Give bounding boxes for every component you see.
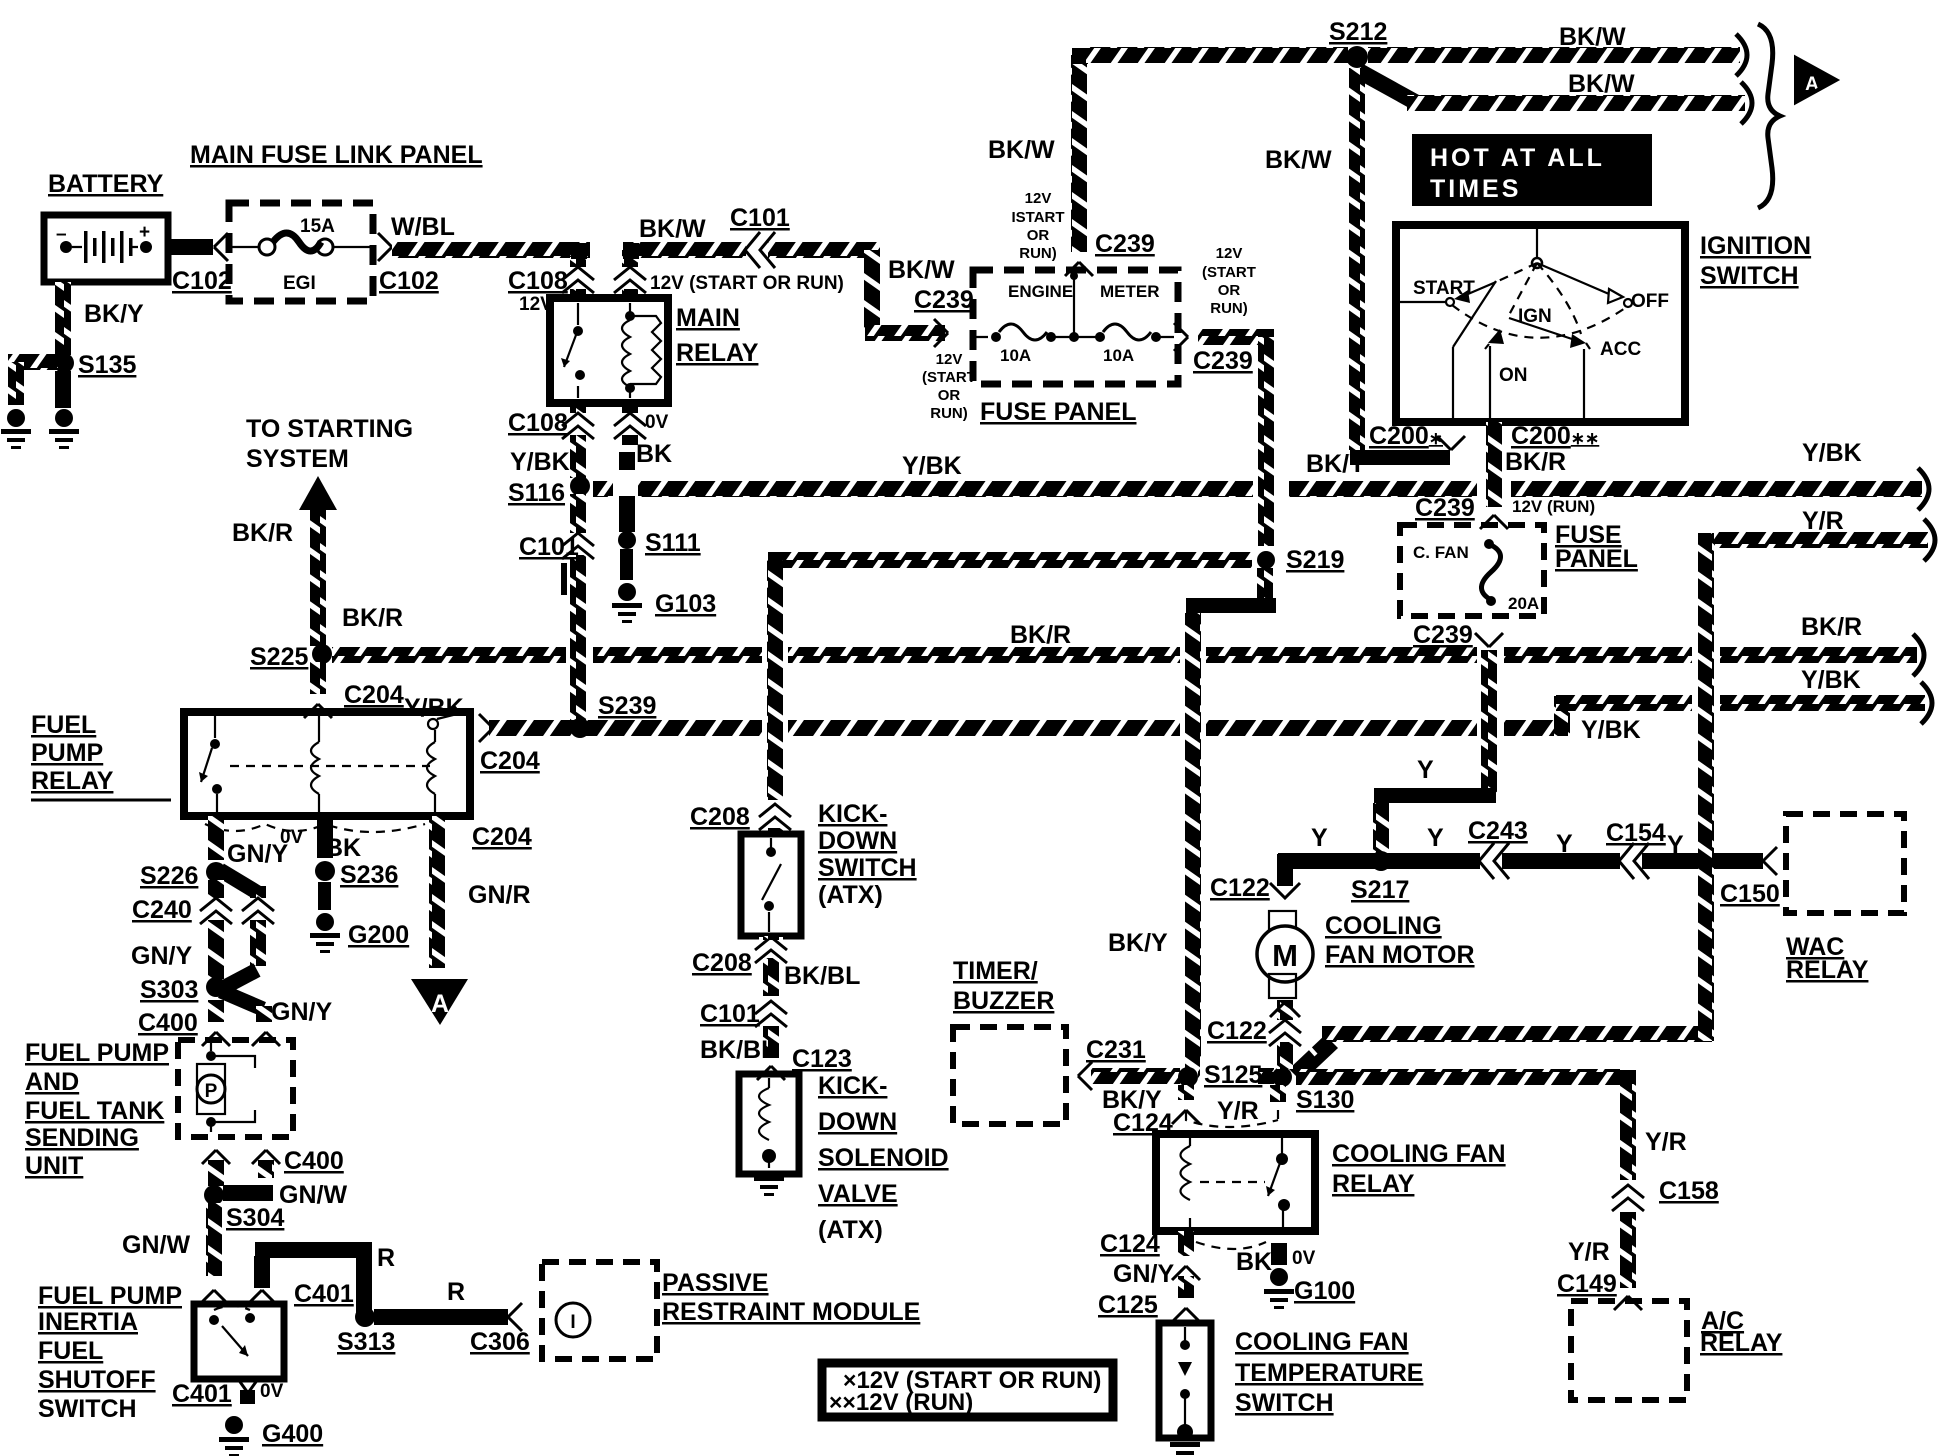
svg-text:GN/R: GN/R (468, 881, 531, 909)
svg-text:INERTIA: INERTIA (38, 1308, 138, 1336)
svg-text:C158: C158 (1659, 1177, 1719, 1205)
svg-text:P: P (205, 1081, 218, 1102)
svg-text:RELAY: RELAY (676, 339, 759, 367)
svg-text:M: M (1272, 938, 1298, 973)
svg-text:S217: S217 (1351, 876, 1409, 904)
svg-text:SWITCH: SWITCH (1235, 1389, 1334, 1417)
svg-text:FUEL TANK: FUEL TANK (25, 1097, 164, 1125)
svg-text:G400: G400 (262, 1420, 323, 1448)
svg-text:12V: 12V (1216, 245, 1243, 262)
svg-text:C208: C208 (692, 949, 752, 977)
svg-text:GN/Y: GN/Y (131, 942, 192, 970)
svg-text:(START: (START (922, 369, 976, 386)
svg-text:C231: C231 (1086, 1036, 1146, 1064)
svg-text:0V: 0V (280, 827, 304, 848)
svg-text:C239: C239 (1095, 230, 1155, 258)
svg-text:Y: Y (1667, 831, 1684, 859)
svg-text:EGI: EGI (283, 273, 316, 294)
svg-text:OR: OR (938, 387, 961, 404)
svg-text:Y/BK: Y/BK (1802, 439, 1862, 467)
svg-text:SWITCH: SWITCH (38, 1395, 137, 1423)
svg-text:RELAY: RELAY (1332, 1170, 1415, 1198)
svg-text:GN/Y: GN/Y (271, 998, 332, 1026)
svg-text:C154: C154 (1606, 819, 1666, 847)
svg-text:S313: S313 (337, 1328, 395, 1356)
svg-text:RUN): RUN) (1019, 245, 1057, 262)
svg-text:Y/BK: Y/BK (510, 448, 570, 476)
svg-text:S212: S212 (1329, 18, 1387, 46)
svg-text:Y/BK: Y/BK (902, 452, 962, 480)
svg-text:SWITCH: SWITCH (1700, 262, 1799, 290)
svg-text:FUEL: FUEL (31, 711, 96, 739)
svg-text:0V: 0V (1292, 1248, 1316, 1269)
svg-text:ON: ON (1499, 365, 1528, 386)
svg-text:12V (START OR RUN): 12V (START OR RUN) (650, 273, 844, 294)
svg-text:COOLING: COOLING (1325, 912, 1442, 940)
svg-text:BK/W: BK/W (1265, 146, 1332, 174)
svg-text:12V (RUN): 12V (RUN) (1512, 497, 1595, 516)
svg-text:R: R (377, 1244, 395, 1272)
svg-text:A: A (431, 990, 449, 1018)
svg-text:C401: C401 (172, 1380, 232, 1408)
svg-text:SENDING: SENDING (25, 1124, 139, 1152)
svg-text:C108: C108 (508, 267, 568, 295)
svg-text:RUN): RUN) (1210, 300, 1248, 317)
svg-text:15A: 15A (300, 216, 335, 237)
svg-text:C204: C204 (472, 823, 532, 851)
svg-text:ENGINE: ENGINE (1008, 282, 1073, 301)
svg-text:Y/R: Y/R (1568, 1238, 1610, 1266)
svg-text:FUEL PUMP: FUEL PUMP (38, 1282, 182, 1310)
svg-text:BK/W: BK/W (639, 215, 706, 243)
svg-text:PANEL: PANEL (1555, 545, 1638, 573)
svg-text:0V: 0V (260, 1381, 284, 1402)
svg-text:IGN: IGN (1518, 306, 1552, 327)
svg-text:C243: C243 (1468, 817, 1528, 845)
svg-text:BK/Y: BK/Y (1108, 929, 1168, 957)
svg-text:S303: S303 (140, 976, 198, 1004)
svg-text:BK/R: BK/R (342, 604, 403, 632)
svg-text:Y: Y (1556, 830, 1573, 858)
svg-text:Y/R: Y/R (1802, 507, 1844, 535)
svg-text:BATTERY: BATTERY (48, 170, 164, 198)
svg-text:GN/W: GN/W (279, 1181, 347, 1209)
svg-text:C401: C401 (294, 1280, 354, 1308)
svg-text:RELAY: RELAY (1700, 1329, 1783, 1357)
svg-text:HOT AT ALL: HOT AT ALL (1430, 144, 1605, 172)
svg-text:Y/BK: Y/BK (1801, 666, 1861, 694)
svg-text:BUZZER: BUZZER (953, 987, 1054, 1015)
svg-text:(ATX): (ATX) (818, 881, 883, 909)
svg-text:C101: C101 (730, 204, 790, 232)
svg-text:OR: OR (1027, 227, 1050, 244)
svg-text:BK/Y: BK/Y (84, 300, 144, 328)
svg-text:C208: C208 (690, 803, 750, 831)
svg-text:KICK-: KICK- (818, 1072, 887, 1100)
svg-text:Y/R: Y/R (1645, 1128, 1687, 1156)
svg-text:12V: 12V (1025, 190, 1052, 207)
svg-text:G100: G100 (1294, 1277, 1355, 1305)
svg-text:C306: C306 (470, 1328, 530, 1356)
svg-text:C122: C122 (1210, 874, 1270, 902)
svg-text:(ATX): (ATX) (818, 1216, 883, 1244)
svg-text:SWITCH: SWITCH (818, 854, 917, 882)
svg-text:10A: 10A (1103, 346, 1134, 365)
svg-text:C239: C239 (1193, 347, 1253, 375)
svg-text:S130: S130 (1296, 1086, 1354, 1114)
svg-text:METER: METER (1100, 282, 1160, 301)
svg-text:Y: Y (1417, 756, 1434, 784)
svg-text:S239: S239 (598, 692, 656, 720)
svg-text:+: + (139, 222, 150, 243)
svg-text:BK/W: BK/W (988, 136, 1055, 164)
svg-text:COOLING FAN: COOLING FAN (1235, 1328, 1409, 1356)
svg-text:BK/R: BK/R (232, 519, 293, 547)
svg-text:C204: C204 (344, 681, 404, 709)
svg-text:COOLING FAN: COOLING FAN (1332, 1140, 1506, 1168)
svg-text:BK: BK (1236, 1248, 1272, 1276)
svg-text:RELAY: RELAY (1786, 956, 1869, 984)
svg-text:C101: C101 (519, 533, 579, 561)
svg-text:FUEL PUMP: FUEL PUMP (25, 1039, 169, 1067)
svg-text:FUSE PANEL: FUSE PANEL (980, 398, 1137, 426)
svg-text:RUN): RUN) (930, 405, 968, 422)
svg-text:ISTART: ISTART (1011, 209, 1064, 226)
svg-text:C122: C122 (1207, 1017, 1267, 1045)
svg-text:START: START (1413, 278, 1475, 299)
svg-text:S116: S116 (508, 479, 565, 507)
svg-text:BK: BK (325, 834, 361, 862)
svg-text:SHUTOFF: SHUTOFF (38, 1366, 156, 1394)
svg-text:C400: C400 (284, 1147, 344, 1175)
svg-text:KICK-: KICK- (818, 800, 887, 828)
svg-text:10A: 10A (1000, 346, 1031, 365)
svg-text:MAIN: MAIN (676, 304, 740, 332)
svg-text:MAIN FUSE LINK PANEL: MAIN FUSE LINK PANEL (190, 141, 483, 169)
svg-text:××12V (RUN): ××12V (RUN) (829, 1389, 973, 1416)
svg-text:OR: OR (1218, 282, 1241, 299)
svg-text:ACC: ACC (1600, 339, 1641, 360)
svg-text:C150: C150 (1720, 880, 1780, 908)
svg-text:S111: S111 (645, 529, 701, 557)
svg-text:G103: G103 (655, 590, 716, 618)
svg-text:DOWN: DOWN (818, 827, 897, 855)
svg-text:0V: 0V (645, 412, 669, 433)
svg-text:PUMP: PUMP (31, 739, 103, 767)
svg-text:BK: BK (636, 440, 672, 468)
svg-text:S304: S304 (226, 1204, 284, 1232)
svg-text:S226: S226 (140, 862, 198, 890)
svg-text:(START: (START (1202, 264, 1256, 281)
svg-text:Y: Y (1311, 824, 1328, 852)
svg-text:TIMES: TIMES (1430, 175, 1521, 203)
svg-text:12V: 12V (936, 351, 963, 368)
svg-text:BK/R: BK/R (1010, 621, 1071, 649)
svg-text:Y/BK: Y/BK (1581, 716, 1641, 744)
svg-text:C108: C108 (508, 409, 568, 437)
svg-text:C124: C124 (1100, 1230, 1160, 1258)
svg-text:PASSIVE: PASSIVE (662, 1269, 769, 1297)
svg-text:FUEL: FUEL (38, 1337, 103, 1365)
svg-text:C239: C239 (914, 286, 974, 314)
svg-text:BK/W: BK/W (888, 256, 955, 284)
svg-text:S219: S219 (1286, 546, 1344, 574)
svg-text:UNIT: UNIT (25, 1152, 83, 1180)
svg-text:BK/BL: BK/BL (700, 1036, 776, 1064)
svg-text:VALVE: VALVE (818, 1180, 898, 1208)
svg-text:I: I (570, 1312, 575, 1333)
svg-text:BK/W: BK/W (1568, 70, 1635, 98)
svg-text:GN/W: GN/W (122, 1231, 190, 1259)
svg-text:C204: C204 (480, 747, 540, 775)
svg-text:C123: C123 (792, 1045, 852, 1073)
svg-text:S225: S225 (250, 643, 308, 671)
svg-text:AND: AND (25, 1068, 79, 1096)
svg-text:BK/W: BK/W (1559, 23, 1626, 51)
svg-text:SOLENOID: SOLENOID (818, 1144, 949, 1172)
svg-text:C125: C125 (1098, 1291, 1158, 1319)
svg-text:C239: C239 (1413, 621, 1473, 649)
svg-text:OFF: OFF (1631, 291, 1669, 312)
svg-text:S236: S236 (340, 861, 398, 889)
svg-text:20A: 20A (1508, 594, 1539, 613)
svg-text:RESTRAINT MODULE: RESTRAINT MODULE (662, 1298, 920, 1326)
svg-text:BK/R: BK/R (1801, 613, 1862, 641)
svg-text:C101: C101 (700, 1000, 760, 1028)
svg-text:C400: C400 (138, 1009, 198, 1037)
svg-text:G200: G200 (348, 921, 409, 949)
svg-text:C102: C102 (379, 267, 439, 295)
svg-text:GN/Y: GN/Y (1113, 1260, 1174, 1288)
svg-text:BK/R: BK/R (1505, 448, 1566, 476)
svg-text:RELAY: RELAY (31, 767, 114, 795)
svg-text:SYSTEM: SYSTEM (246, 445, 349, 473)
svg-text:C240: C240 (132, 896, 192, 924)
svg-text:TO STARTING: TO STARTING (246, 415, 413, 443)
svg-text:TIMER/: TIMER/ (953, 957, 1038, 985)
svg-text:DOWN: DOWN (818, 1108, 897, 1136)
svg-text:BK/BL: BK/BL (784, 962, 860, 990)
svg-text:Y/R: Y/R (1217, 1097, 1259, 1125)
svg-text:C. FAN: C. FAN (1413, 543, 1469, 562)
svg-text:TEMPERATURE: TEMPERATURE (1235, 1359, 1423, 1387)
svg-text:S125: S125 (1204, 1061, 1262, 1089)
svg-text:S135: S135 (78, 351, 136, 379)
svg-text:FAN MOTOR: FAN MOTOR (1325, 941, 1475, 969)
svg-text:R: R (447, 1278, 465, 1306)
svg-text:C149: C149 (1557, 1270, 1617, 1298)
svg-text:W/BL: W/BL (391, 213, 455, 241)
svg-text:C102: C102 (172, 267, 232, 295)
svg-text:Y: Y (1427, 824, 1444, 852)
svg-text:C239: C239 (1415, 494, 1475, 522)
svg-text:IGNITION: IGNITION (1700, 232, 1811, 260)
